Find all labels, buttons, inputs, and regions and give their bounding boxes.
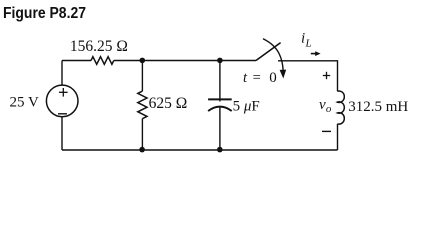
node dot top of capacitor branch xyxy=(217,58,223,64)
svg-text:312.5 mH: 312.5 mH xyxy=(348,99,408,115)
capacitor C1 bottom curved plate xyxy=(208,107,232,111)
wire capacitor top lead xyxy=(219,60,221,101)
wire inductor bottom lead xyxy=(337,124,339,150)
label t = 0 xyxy=(243,70,277,86)
node dot top of 625 ohm branch xyxy=(140,58,146,64)
svg-text:Figure P8.27: Figure P8.27 xyxy=(3,4,86,22)
switch motion arc xyxy=(263,39,283,71)
wire source bottom lead xyxy=(61,117,63,150)
V1 minus sign xyxy=(58,113,67,115)
voltage source V1 circle xyxy=(46,85,78,117)
label vo minus xyxy=(322,130,331,132)
resistor R2 625 ohm xyxy=(138,91,147,119)
wire 625 branch top lead xyxy=(141,60,143,91)
switch blade xyxy=(256,43,281,61)
wire top-left segment xyxy=(62,60,91,62)
wire capacitor bottom lead xyxy=(219,107,221,150)
svg-text:25 V: 25 V xyxy=(10,95,39,111)
svg-text:5 μF: 5 μF xyxy=(233,98,260,114)
svg-text:iL: iL xyxy=(301,31,312,50)
iL arrow xyxy=(311,53,316,55)
resistor R1 156.25 ohm xyxy=(91,57,114,65)
wire source top lead xyxy=(61,61,63,86)
svg-text:=: = xyxy=(253,70,261,86)
svg-text:156.25 Ω: 156.25 Ω xyxy=(70,38,128,55)
switch arrowhead xyxy=(280,70,287,79)
V1 plus sign xyxy=(59,88,68,97)
svg-text:0: 0 xyxy=(269,70,277,86)
svg-text:625 Ω: 625 Ω xyxy=(149,95,188,112)
wire top-right segment xyxy=(278,61,338,92)
node dot bottom of capacitor branch xyxy=(217,147,223,153)
node dot bottom of 625 ohm branch xyxy=(139,147,145,153)
capacitor C1 top plate xyxy=(208,98,232,100)
wire bottom xyxy=(62,149,338,151)
wire 625 branch bottom lead xyxy=(141,119,143,150)
label vo plus xyxy=(323,72,330,79)
svg-text:t: t xyxy=(243,70,248,86)
inductor L1 coil xyxy=(338,91,345,124)
wire top middle xyxy=(114,60,256,62)
svg-text:vo: vo xyxy=(319,97,332,115)
